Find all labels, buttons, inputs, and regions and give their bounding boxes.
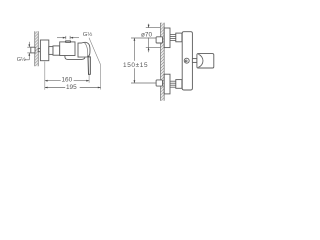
top connection nut (right view) — [176, 33, 182, 42]
extension line right of lever tip (195) — [100, 65, 102, 90]
bottom escutcheon (right view) — [164, 74, 170, 94]
bottom connection nut (right view) — [176, 80, 182, 89]
handle knob inner arc (right view) — [198, 54, 203, 67]
handle knob (right view, end-on) — [197, 54, 214, 68]
svg-text:150±15: 150±15 — [123, 62, 148, 69]
ring (left view) — [49, 47, 53, 55]
G1/2 dim arrowheads (left view) — [28, 44, 30, 55]
handle hub inner curve (left view) — [84, 43, 87, 57]
G1/2 dimension (left view): ticks, arrows, line — [24, 42, 31, 60]
svg-text:G½: G½ — [17, 56, 26, 63]
svg-text:195: 195 — [66, 84, 77, 91]
svg-text:160: 160 — [62, 77, 73, 84]
supply stub (left view) — [31, 47, 41, 53]
leader line from top G1/2 label — [89, 38, 101, 65]
main body (left view) — [60, 42, 75, 56]
top thread nipple (right view) — [170, 35, 176, 41]
svg-text:G½: G½ — [83, 31, 93, 38]
wall (right view) hatched band — [160, 23, 164, 101]
extension line from escutcheon (left) — [44, 62, 46, 90]
port width dimension (left view top): line+arrows — [57, 36, 79, 39]
handle knob block (left view) — [78, 42, 90, 57]
top supply stub (right view) — [156, 37, 162, 43]
dimension 195 (left view) — [45, 87, 101, 89]
dia70 dimension (right view) — [146, 24, 161, 53]
bottom supply stub (right view) — [156, 80, 162, 86]
bottom thread nipple (right view) — [170, 81, 176, 87]
pivot circle on body (right view) — [184, 58, 189, 63]
extension line at lever tip (160) — [88, 75, 90, 83]
lever (left view, pointing down) — [88, 57, 90, 75]
mixer body (right view) — [182, 32, 192, 90]
dimension 160 (left view) — [45, 80, 89, 82]
handle neck (right view) — [192, 59, 197, 63]
wall (left view) hatched band — [35, 31, 39, 66]
escutcheon (left view) — [40, 40, 48, 61]
svg-text:ø70: ø70 — [141, 32, 152, 39]
shaft (left view) — [53, 46, 60, 55]
top escutcheon (right view) — [164, 28, 170, 48]
top riser port G1/2 (left view) — [66, 41, 71, 42]
150+/-15 dimension (right view) — [131, 38, 156, 83]
bottom hose outlet boss (left view) — [65, 56, 85, 60]
